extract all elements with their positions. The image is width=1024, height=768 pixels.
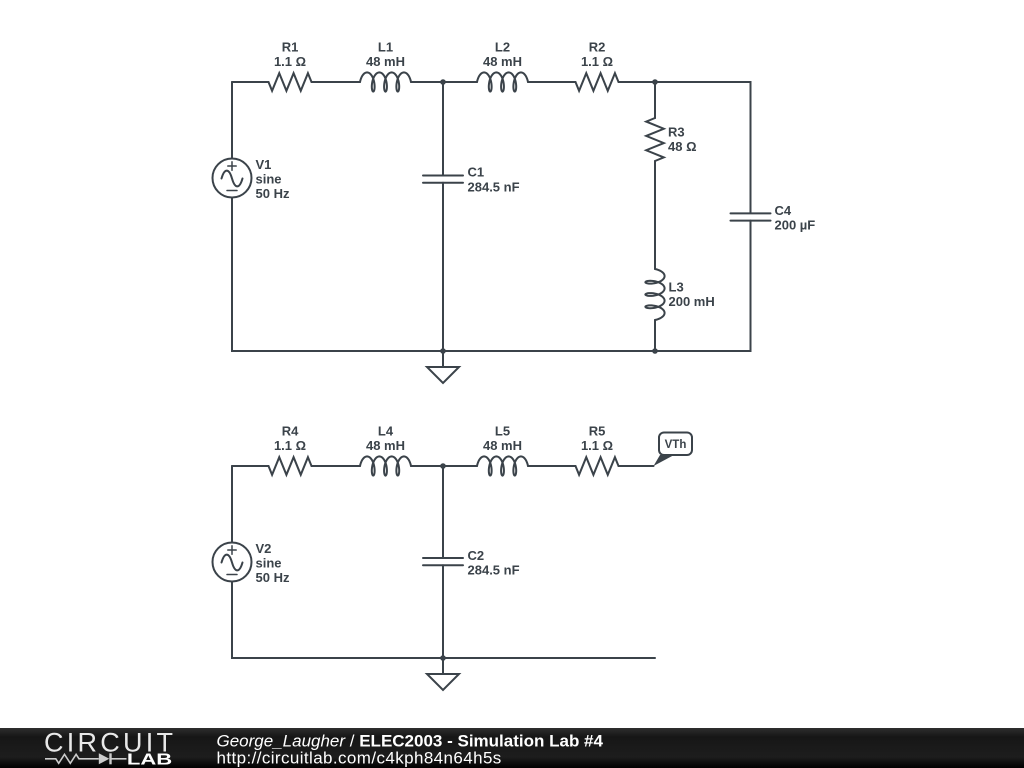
svg-text:200 µF: 200 µF bbox=[775, 218, 816, 233]
svg-text:200 mH: 200 mH bbox=[669, 294, 715, 309]
label C4 bbox=[775, 203, 816, 233]
wire: C4 to bottom-right corner bbox=[655, 221, 751, 351]
wire: R4 to L4 bbox=[312, 465, 361, 467]
label C1 bbox=[468, 165, 520, 195]
wire: bottom rail node A to node B column bbox=[443, 350, 655, 352]
voltage source V1 bbox=[213, 159, 252, 198]
label V1 bbox=[256, 157, 290, 201]
logo diode bbox=[99, 753, 112, 764]
svg-text:284.5 nF: 284.5 nF bbox=[468, 180, 520, 195]
ground node dot (bottom circuit) bbox=[440, 655, 446, 661]
svg-text:C1: C1 bbox=[468, 165, 485, 180]
svg-text:48 mH: 48 mH bbox=[366, 438, 405, 453]
capacitor C4 bbox=[731, 213, 771, 220]
ground (top circuit) bbox=[427, 351, 459, 383]
inductor L4 bbox=[360, 456, 411, 475]
svg-text:284.5 nF: 284.5 nF bbox=[468, 563, 520, 578]
wire: L5 to R5 bbox=[528, 465, 576, 467]
wire: R2 to node B bbox=[619, 81, 656, 83]
svg-text:48 mH: 48 mH bbox=[483, 54, 522, 69]
wire: R1 to L1 bbox=[312, 81, 361, 83]
label R4 bbox=[274, 424, 306, 454]
svg-text:sine: sine bbox=[256, 172, 282, 187]
wire: V1 to bottom-left corner and bottom rail bbox=[232, 198, 443, 352]
svg-text:L1: L1 bbox=[378, 40, 393, 55]
label L3 bbox=[669, 280, 715, 310]
svg-text:R3: R3 bbox=[668, 125, 685, 140]
svg-text:50 Hz: 50 Hz bbox=[256, 186, 290, 201]
svg-text:1.1 Ω: 1.1 Ω bbox=[581, 438, 613, 453]
wire: V2 to bottom-left corner and bottom rail bbox=[232, 582, 443, 659]
svg-text:LAB: LAB bbox=[127, 751, 172, 768]
node B junction dot bbox=[652, 79, 658, 85]
inductor L2 bbox=[477, 72, 528, 91]
svg-text:R4: R4 bbox=[282, 424, 299, 439]
wire: L1 to node A bbox=[411, 81, 443, 83]
logo schematic squiggle (resistor + diode) bbox=[45, 754, 127, 765]
svg-text:1.1 Ω: 1.1 Ω bbox=[274, 54, 306, 69]
wire: R5 to VTh tail bbox=[619, 465, 654, 467]
svg-text:C2: C2 bbox=[468, 548, 485, 563]
svg-text:1.1 Ω: 1.1 Ω bbox=[274, 438, 306, 453]
wire: bottom circuit top-left corner to R4 bbox=[232, 465, 269, 467]
svg-text:48 mH: 48 mH bbox=[483, 438, 522, 453]
wire: node C down to C2 bbox=[442, 466, 444, 558]
svg-text:48 mH: 48 mH bbox=[366, 54, 405, 69]
svg-text:50 Hz: 50 Hz bbox=[256, 570, 290, 585]
resistor R4 bbox=[269, 457, 312, 475]
capacitor C2 bbox=[423, 558, 463, 565]
svg-text:C4: C4 bbox=[775, 203, 792, 218]
wire: L2 to R2 bbox=[528, 81, 576, 83]
wire: C1 to bottom rail bbox=[442, 183, 444, 351]
svg-text:R1: R1 bbox=[282, 40, 299, 55]
svg-text:48 Ω: 48 Ω bbox=[668, 139, 697, 154]
svg-text:V2: V2 bbox=[256, 541, 272, 556]
wire: node A down to C1 bbox=[442, 82, 444, 176]
flag VTh bbox=[654, 433, 693, 467]
wire: node B to top-right corner and down to C4 bbox=[655, 82, 751, 213]
label R2 bbox=[581, 40, 613, 70]
resistor R1 bbox=[269, 73, 312, 91]
svg-text:VTh: VTh bbox=[665, 439, 687, 451]
inductor L1 bbox=[360, 72, 411, 91]
wire: top circuit top-left corner to R1 bbox=[232, 81, 269, 83]
capacitor C1 bbox=[423, 176, 463, 183]
wire: R3 to L3 bbox=[654, 161, 656, 269]
svg-text:R5: R5 bbox=[589, 424, 606, 439]
svg-text:L3: L3 bbox=[669, 280, 684, 295]
wire: C2 to bottom rail bbox=[442, 565, 444, 658]
wire: L3 to bottom rail bbox=[654, 320, 656, 351]
svg-text:R2: R2 bbox=[589, 40, 606, 55]
label V2 bbox=[256, 541, 290, 585]
label L5 bbox=[483, 424, 522, 454]
label L4 bbox=[366, 424, 405, 454]
ground node dot (top circuit) bbox=[440, 348, 446, 354]
wire: node B down to R3 bbox=[654, 82, 656, 118]
node A junction dot bbox=[440, 79, 446, 85]
label L1 bbox=[366, 40, 405, 70]
wire: L4 to node C bbox=[411, 465, 443, 467]
label C2 bbox=[468, 548, 520, 578]
resistor R2 bbox=[576, 73, 619, 91]
wire: left column (corner to V2) bbox=[231, 466, 233, 543]
label R5 bbox=[581, 424, 613, 454]
svg-text:L5: L5 bbox=[495, 424, 510, 439]
ground (bottom circuit) bbox=[427, 658, 459, 690]
svg-text:L4: L4 bbox=[378, 424, 394, 439]
svg-text:V1: V1 bbox=[256, 157, 272, 172]
footer bar bbox=[0, 728, 1024, 768]
svg-text:1.1 Ω: 1.1 Ω bbox=[581, 54, 613, 69]
junction dot node B bottom bbox=[652, 348, 658, 354]
resistor R5 bbox=[576, 457, 619, 475]
wire: node A to L2 bbox=[443, 81, 477, 83]
label R1 bbox=[274, 40, 306, 70]
wire: left column top (corner to V1) bbox=[231, 82, 233, 159]
resistor R3 bbox=[646, 118, 664, 161]
inductor L5 bbox=[477, 456, 528, 475]
voltage source V2 bbox=[213, 543, 252, 582]
label L2 bbox=[483, 40, 522, 70]
wire: bottom rail to open end bbox=[443, 657, 655, 659]
inductor L3 bbox=[645, 269, 664, 320]
svg-text:http://circuitlab.com/c4kph84n: http://circuitlab.com/c4kph84n64h5s bbox=[217, 749, 502, 768]
wire: node C to L5 bbox=[443, 465, 477, 467]
svg-text:L2: L2 bbox=[495, 40, 510, 55]
label R3 bbox=[668, 125, 697, 155]
svg-text:sine: sine bbox=[256, 556, 282, 571]
node C junction dot bbox=[440, 463, 446, 469]
